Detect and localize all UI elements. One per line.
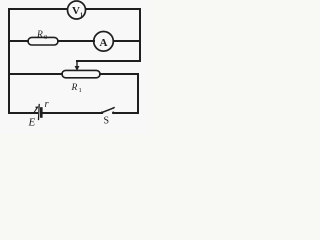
svg-text:E: E	[28, 117, 36, 129]
switch S blade	[102, 108, 114, 113]
voltmeter V	[68, 1, 86, 19]
wire bottom right	[114, 112, 139, 114]
rheostat R1	[62, 70, 100, 77]
rheostat slider arrowhead	[75, 66, 80, 71]
wire bottom left	[9, 112, 37, 114]
resistor R0	[28, 37, 58, 45]
svg-text:S: S	[104, 116, 110, 127]
battery plate long	[38, 105, 41, 120]
wire left rail	[8, 9, 10, 113]
wire row2 left	[9, 40, 28, 42]
svg-text:1: 1	[79, 87, 82, 94]
svg-text:R: R	[71, 83, 78, 93]
wire row2 mid	[58, 40, 94, 42]
wire row3 left	[9, 73, 62, 75]
svg-text:0: 0	[44, 34, 47, 41]
battery plate short	[40, 109, 43, 117]
wire row2 right	[114, 40, 141, 42]
switch contact left	[101, 111, 104, 114]
wire right rail upper	[139, 9, 141, 61]
wire top row left	[9, 8, 67, 10]
wire top row right	[86, 8, 140, 10]
wire row3 right	[100, 73, 138, 75]
svg-text:1: 1	[80, 13, 83, 19]
ammeter A	[94, 32, 114, 52]
wire bottom mid	[43, 112, 102, 114]
svg-text:R: R	[36, 30, 43, 40]
wire right rail lower	[137, 74, 139, 113]
wire slider tap	[77, 60, 140, 62]
rheostat slider arrow	[76, 61, 78, 67]
battery arrow mark	[34, 108, 36, 112]
battery arrow head	[35, 106, 39, 109]
svg-text:A: A	[100, 37, 108, 49]
svg-text:V: V	[72, 5, 80, 17]
switch contact right	[112, 112, 115, 115]
